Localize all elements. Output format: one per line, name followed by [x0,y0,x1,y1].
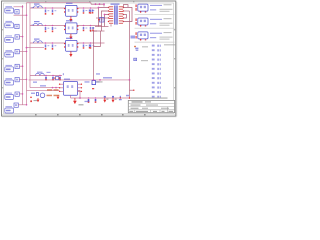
relay K2 [135,18,148,27]
junction D0 [79,97,81,99]
wire J4 to bus [19,50,26,52]
value text C32 [93,45,95,46]
junction A2 [52,75,54,77]
net table row 1 [152,45,161,47]
junction row2 C2 [90,25,92,27]
separator under K3 [135,41,175,43]
junction J6 [26,79,28,81]
ground stub Q1 [74,98,76,101]
value text row1a [48,10,50,11]
filter IC U2 [66,23,78,34]
wire aux row3 [27,47,45,49]
top bus wire [27,2,92,4]
junction J8 [26,104,28,106]
net table row 7 [152,73,161,75]
junction row1 R1 [45,7,47,9]
value text row2a [48,28,50,29]
connector J4 [5,50,14,57]
value text C11 [86,10,88,11]
label U3 [66,38,73,39]
inductor L1 [34,6,43,8]
resistor R32 [52,45,54,50]
net table row 9 [152,82,161,84]
capacitor CS3 [92,27,94,31]
wire primary return [93,47,95,80]
capacitor C21 [83,27,85,31]
diode DB1 [54,77,60,80]
wire J8 to bus [18,104,26,106]
junction T1 b [104,14,106,16]
transformer T1 secondary winding [119,7,123,23]
junction row2 R2 [52,25,54,27]
transformer T1 core [115,5,117,24]
ground stub U1 [70,16,72,19]
T1 secondary pins [123,7,124,22]
wire bottom A [30,75,62,77]
diode D7 [15,92,19,96]
junction J3 [22,36,24,38]
capacitor CS4 [89,45,91,49]
gray text D11a [141,60,148,61]
value text R10 [47,89,52,90]
label U4 [64,79,70,80]
junction B7 [93,79,95,81]
text K2 [150,18,173,26]
separator under K2 [135,27,175,29]
wire J6 to bus [19,78,26,80]
junction J2 [26,14,28,16]
wire bus to U4 pin2 [30,87,60,89]
wire J7 to bus [19,93,22,95]
label L3 [34,39,40,40]
net label B1 [33,82,37,83]
blue text CP2 [126,95,129,97]
wire J3 to bus [19,36,22,38]
capacitor CS2 [92,10,94,14]
junction row1 R2 [52,7,54,9]
transformer T1 primary winding [109,7,113,23]
capacitor CX1 [45,77,47,81]
capacitor CO1 [88,99,90,103]
connector J2 [5,21,14,28]
sheet bottom shadow [2,116,177,118]
filter IC U3 [66,40,78,51]
varistor RV1 [40,93,45,98]
blue text bus1 [32,7,34,8]
net table row 8 [152,77,161,79]
red mark L2 [30,100,32,102]
ground U1 [69,19,72,22]
thermistor RT1 [36,93,38,96]
diode D2 [15,24,19,28]
T1 primary pins [108,7,109,22]
wire T1 sec2 [123,10,129,12]
value text C21 [86,28,88,29]
ground RT1 [37,98,40,102]
wire T1 sec1 [123,8,132,22]
top wire segment 2 [91,3,104,5]
cap+ground CG1 [103,96,108,103]
diode ZD1 [92,81,103,85]
value text row3a [48,45,50,46]
junction J1 [22,6,24,8]
connector J5 [5,65,14,72]
capacitor CO2 [95,99,97,103]
connector J6 [5,78,14,85]
pin mark U4 [63,73,64,75]
wire bus to U4 pin3 [27,90,60,92]
resistor R31 [45,45,47,50]
sheet outer border [2,1,176,116]
relay K3 [135,32,148,41]
label T1 [111,3,120,5]
junction end D [129,97,131,99]
capacitor CX2 [52,77,54,81]
diode D4 [15,50,19,54]
value text row1b [55,10,57,11]
ground Q1 [73,101,77,104]
label U2 [66,20,73,21]
gray text above title block [131,97,168,98]
wire J1 to bus [14,6,23,8]
gray text M3 [79,104,84,105]
sheet inner border [4,3,174,114]
junction B8 [99,79,101,81]
blue text M2 [85,101,90,102]
net table row 2 [152,49,161,51]
wire primary drop [100,31,102,47]
blue text bus2 [32,25,34,26]
net table row 4 [152,59,161,61]
junction T1 c [99,3,101,5]
connector J8 [5,106,14,113]
junction top a [95,3,97,5]
value text C22 [93,28,95,29]
top wire sec jog [123,5,128,7]
top zone ticks [45,1,134,2]
resistor mark R11 [92,88,94,89]
junction top b [103,3,105,5]
net table row 11 [152,91,161,93]
connector J3 [5,35,14,42]
value text C12 [93,10,95,11]
polar cap CP1 [119,96,122,100]
PWM IC U4 [64,82,78,96]
junction row3 C2 [90,42,92,44]
junction row2 C1 [83,25,85,27]
wire stub sec [130,89,135,91]
junction J5 [22,65,24,67]
net label B5 [103,77,112,78]
connector J1 [5,6,14,13]
right zone ticks [174,29,175,88]
label L1 [34,4,40,5]
diode D6 [15,78,19,82]
wire T1 bottom stub [110,24,112,26]
wire T1 pin4 [96,17,109,19]
wire T1 pin3 [105,15,109,27]
junction row3 R2 [52,42,54,44]
wire secondary bus [129,11,131,98]
wire T1 pin2 [102,11,109,31]
junction W1b [55,87,57,89]
junction T1 a [98,7,100,9]
wire row2 [30,25,102,27]
label CX [47,72,51,73]
wire node P6 [91,30,105,32]
junction B9 [129,79,131,81]
wire U4 bottom [70,95,72,98]
diode D9 [98,18,104,23]
junction D2 [95,97,97,99]
blue text M1 [96,73,100,74]
bus line N3 [29,3,31,88]
resistor R12 [52,10,54,15]
bottom zone labels [35,114,146,115]
sheet right shadow [176,2,178,117]
ground stub U3 [70,51,72,54]
wire U4 right [78,91,81,99]
ground U2 [69,37,72,40]
junction sec stub [133,90,134,91]
wire J5 to bus [19,65,22,67]
capacitor C11 [83,10,85,14]
top wire drop [90,3,92,5]
junction L1 [30,97,32,99]
text K3 [150,32,173,40]
wire J2 to bus [14,14,27,16]
title block text [129,101,173,112]
capacitor C31 [83,45,85,49]
diode D8 [14,103,18,107]
diode D11 [134,58,137,60]
top wire drop2 [103,4,105,6]
wire bottom D [71,97,130,99]
diode D1 [15,10,19,14]
blue text M4 [31,93,35,94]
gray text Q2b [164,44,176,45]
junction row1 C1 [83,7,85,9]
resistor R21 [45,27,47,32]
resistor R22 [52,27,54,32]
junction W1a [52,87,54,89]
gray text Q2a [142,46,148,47]
ground small U4 [57,95,60,99]
resistor R11 [45,10,47,15]
left zone ticks [2,29,3,88]
inductor L4 [36,73,45,75]
value text C31 [86,45,88,46]
blue text U5 [131,36,136,39]
junction P6 [90,30,91,31]
pins U2 [64,25,78,30]
capacitor CS1 [89,10,91,14]
capacitor CX3 [59,77,61,81]
relay K1 [135,4,148,13]
sheet background [0,0,180,139]
junction J4 [26,51,28,53]
wire T1 sec3 [123,15,126,19]
label L2 [34,21,40,22]
label U1 [66,3,73,4]
pins U3 [64,43,78,48]
net table row 10 [152,86,161,88]
inductor L3 [34,41,43,43]
cap+ground CG2 [112,96,117,103]
net label B4 [96,81,100,82]
title block rules [128,104,174,113]
label L4 [37,72,43,73]
junction A1 [45,75,47,77]
wire row3 [30,42,105,44]
sheet bottom zone band [2,114,175,116]
bus line N1 [22,5,24,105]
capacitor C22 [90,27,92,31]
diode D5 [15,64,19,68]
capacitor C12 [90,10,92,14]
ground stub U2 [70,34,72,37]
ground U3 [69,54,72,57]
net label W1 [40,85,46,86]
transistor Q2 [134,46,138,51]
wire row1 [30,7,99,9]
bus line N2 [26,3,28,105]
junction aux row3 [26,47,28,49]
junction A3 [59,75,61,77]
wire node P5 [95,26,109,28]
diode D3 [15,35,19,39]
net table row 6 [152,68,161,70]
pins U1 [64,8,78,13]
separator under K1 [135,13,175,15]
junction row3 C1 [83,42,85,44]
pins U4 [59,84,82,93]
junction D1 [88,97,90,99]
net table row 12 [152,96,161,98]
wire bottom B [29,79,130,81]
capacitor C32 [90,45,92,49]
filter IC U1 [66,5,78,16]
title block frame [128,100,174,112]
junction row2 R1 [45,25,47,27]
value text row3b [55,45,57,46]
value text F1 [47,95,53,97]
value text row2b [55,28,57,29]
net label B2 [70,81,75,82]
inductor L2 [34,23,43,25]
connector J7 [5,93,14,100]
net table row 5 [152,63,161,65]
junction row3 R1 [45,42,47,44]
wire T1 pin1 [99,8,109,27]
wire primary loop [94,31,101,47]
junction J7 [22,93,24,95]
text K1 [150,4,173,12]
junction row1 C2 [90,7,92,9]
net label B3 [85,81,90,82]
gray text M5 [34,100,38,101]
net table row 3 [152,54,161,56]
